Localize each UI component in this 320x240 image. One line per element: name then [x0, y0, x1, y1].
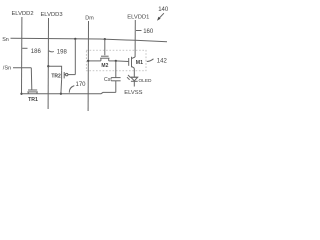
node junction TR2 wire170 [60, 93, 62, 95]
node junction Dm M2 [87, 60, 89, 62]
svg-text:ELVDD3: ELVDD3 [40, 12, 62, 18]
svg-text:160: 160 [143, 29, 154, 35]
svg-text:M2: M2 [101, 63, 108, 69]
svg-text:140: 140 [158, 7, 169, 13]
label 198 leader [49, 51, 54, 52]
pixel circuit dashed box 142 [86, 50, 146, 71]
svg-text:ELVDD2: ELVDD2 [11, 11, 33, 17]
node junction gate node [115, 60, 117, 62]
label 186 leader [22, 47, 27, 49]
wire Sn to TR2 gate vertical [74, 39, 76, 75]
node junction V1 wire170 [20, 93, 22, 95]
svg-text:OLED: OLED [138, 78, 152, 84]
transistor TR2 gate bubble [66, 73, 68, 75]
node junction Sn to M2 gate [104, 38, 106, 40]
wire /Sn horizontal [13, 67, 31, 69]
diode OLED [131, 76, 138, 78]
capacitor Cst lead top [115, 61, 117, 78]
wire M1 drain down [133, 68, 135, 77]
svg-text:142: 142 [157, 58, 168, 64]
label 142 leader [147, 59, 154, 62]
transistor TR1 [28, 89, 37, 91]
node junction Sn to TR2 gate [74, 38, 76, 40]
label 170 leader [69, 86, 74, 93]
svg-text:Dm: Dm [85, 16, 94, 22]
svg-text:170: 170 [75, 82, 86, 88]
svg-text:198: 198 [57, 49, 68, 55]
wire M2 gate lead vertical [104, 39, 106, 55]
wire TR2 drain down [60, 80, 63, 94]
diode OLED emission arrows [128, 75, 131, 78]
label 140 arrow [159, 13, 164, 18]
svg-text:TR2: TR2 [51, 74, 61, 80]
wire V2 to TR2 [48, 66, 61, 71]
wire TR2 gate horizontal [68, 74, 75, 76]
svg-text:Cst: Cst [104, 77, 112, 83]
svg-text:M1: M1 [136, 60, 143, 66]
wire ELVDD3 vertical line [47, 18, 49, 109]
wire M2 row [88, 60, 101, 62]
wire /Sn down to TR1 gate [30, 68, 33, 90]
transistor M2 [101, 55, 109, 57]
svg-text:186: 186 [31, 49, 42, 55]
wire 170 bottom horizontal [22, 92, 116, 93]
svg-text:TR1: TR1 [28, 97, 38, 103]
wire Sn scan line [11, 38, 168, 42]
svg-text:ELVSS: ELVSS [124, 90, 142, 96]
svg-text:ELVDD1: ELVDD1 [127, 14, 149, 20]
transistor TR2 [61, 71, 63, 80]
wire ELVDD2 vertical line [21, 17, 23, 94]
wire ELVDD1 vertical line [134, 20, 136, 57]
label 160 leader [136, 30, 142, 32]
transistor M1 [128, 58, 130, 66]
wire Dm data line vertical [87, 21, 89, 111]
svg-text:Sn: Sn [2, 37, 9, 43]
node junction V2 TR2 source [47, 65, 49, 67]
capacitor Cst [111, 77, 120, 79]
svg-text:/Sn: /Sn [3, 66, 11, 72]
capacitor Cst lead bottom [115, 81, 117, 93]
